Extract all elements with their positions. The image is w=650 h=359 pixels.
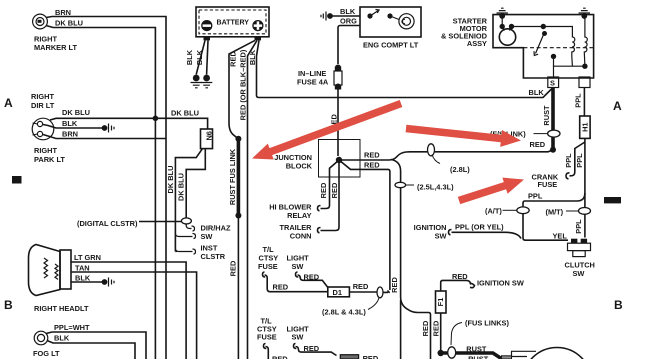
starter motor circle [499,29,515,45]
svg-text:RED: RED [229,260,238,276]
wire to dir/haz sw upper curl [186,224,194,231]
svg-text:SW: SW [435,232,447,241]
eng compt lt lamp [399,14,414,29]
wire RED (OR BLK-RED) battery feed [248,40,258,359]
connector oval digital cluster [181,218,191,224]
svg-text:F1: F1 [436,298,445,307]
svg-text:(A/T): (A/T) [485,207,502,216]
svg-text:FUSE: FUSE [257,333,277,342]
battery negative terminal [201,20,212,40]
wire RED to hi blower relay [318,160,340,211]
oval 2.8L and 4.3L connector [377,287,383,298]
svg-text:BLK: BLK [185,49,194,65]
wire DK BLU N6 to dir/haz sw 2 [186,149,205,225]
svg-text:BRN: BRN [62,130,78,139]
svg-text:BLOCK: BLOCK [286,162,313,171]
starter assy outline [493,15,594,78]
fuse F1 [436,291,447,313]
svg-text:RED: RED [229,51,238,67]
junction dot DK BLU [153,116,159,122]
eng compt lt switch [367,10,399,20]
svg-text:(DIGITAL CLSTR): (DIGITAL CLSTR) [77,219,138,228]
wire BLK battery to starter S [257,40,553,97]
wire PPL branch to A/T [523,193,585,240]
battery positive terminal [252,20,263,40]
oval 2.8L connector [428,144,435,156]
oval F/S link connector [548,130,560,137]
svg-text:(2.8L): (2.8L) [450,165,470,174]
red arrow 2 to F/S link [406,125,521,147]
svg-text:A: A [613,99,622,113]
svg-text:RED: RED [363,354,379,359]
svg-text:BRN: BRN [55,8,71,17]
ground headlt [102,278,114,287]
svg-text:H1: H1 [580,122,589,131]
svg-text:RIGHT: RIGHT [31,92,54,101]
wire from light sw row2 to D2 [294,344,337,356]
svg-text:FUSE 4A: FUSE 4A [297,78,329,87]
headlamp right headlt [29,245,72,296]
svg-text:RED: RED [304,344,320,353]
switch output dot to S [551,54,556,59]
svg-text:SW: SW [292,262,304,271]
thick RUST link from S [551,88,555,150]
connector D1 [328,287,350,297]
wire PPL-WHT fog light [46,332,146,359]
junction block dot [336,157,342,163]
junction block box [319,140,361,178]
svg-text:B: B [614,298,623,312]
wire BLK eng compt lt [330,15,360,17]
svg-text:DK BLU: DK BLU [171,109,199,118]
wire BLK battery ground 2 [207,40,208,74]
svg-text:RED: RED [330,182,339,198]
svg-text:TAN: TAN [75,264,90,273]
wire PPL solenoid to H1 [583,88,585,117]
red arrow 1 to rust fus link [252,100,402,160]
svg-text:SW: SW [201,232,213,241]
svg-text:(2.5L,4.3L): (2.5L,4.3L) [417,183,454,192]
wire BLK battery ground 1 [196,40,205,74]
svg-text:RED: RED [432,320,441,336]
wire BLK fog light [47,341,135,359]
connector fog light [34,331,48,345]
wire DK BLU marker light [46,26,155,359]
svg-text:BLK: BLK [62,119,78,128]
svg-text:D1: D1 [333,288,342,297]
rust bus dot [438,350,444,356]
svg-text:B: B [4,298,13,312]
svg-text:(2.8L & 4.3L): (2.8L & 4.3L) [322,308,366,317]
wire LT GRN headlt [71,262,186,359]
svg-text:PPL: PPL [574,93,583,108]
wire oval to vertical riser [383,290,390,292]
svg-text:CONN: CONN [290,232,312,241]
svg-text:LT GRN: LT GRN [74,253,101,262]
svg-text:RED: RED [364,161,380,170]
svg-text:RIGHT HEADLT: RIGHT HEADLT [34,304,89,313]
svg-text:FOG LT: FOG LT [33,349,60,358]
coil common wire [554,65,585,67]
tick A/T [503,209,517,211]
battery box [196,7,269,37]
ground battery 2 [201,75,212,88]
svg-text:ENG COMPT LT: ENG COMPT LT [363,41,419,50]
blower motor [523,348,592,359]
oval 2.5L,4.3L connector [395,182,406,187]
ground starter 2 [579,8,590,19]
connector D2 [340,355,358,359]
svg-text:RED: RED [304,273,320,282]
svg-text:RUST: RUST [466,345,487,354]
wire F1 to ignition sw [441,280,475,291]
svg-text:CLSTR: CLSTR [201,252,226,261]
blower motor leads [512,351,537,356]
svg-text:DK BLU: DK BLU [55,19,83,28]
ground park light [102,124,114,133]
ground starter 1 [497,8,508,19]
svg-text:DK BLU: DK BLU [62,108,90,117]
solenoid contact bus [512,27,573,38]
ground battery 1 [191,75,202,88]
svg-text:N6: N6 [205,131,214,140]
connector H1 [580,116,590,138]
wire BRN park light [43,135,166,139]
svg-text:RUST: RUST [542,105,551,126]
svg-text:PPL: PPL [574,219,583,234]
terminal S box [548,77,559,88]
svg-text:PPL: PPL [564,153,573,168]
connector right marker light [33,14,48,29]
wire F1 down to rust bus dot [440,313,442,353]
clutch switch [568,239,591,257]
svg-text:RED: RED [353,282,369,291]
svg-text:BLK: BLK [340,7,356,16]
wire DK BLU park light [50,118,208,129]
svg-text:RED: RED [530,140,546,149]
wire (DIGITAL CLSTR) lead [139,221,181,223]
svg-text:RED: RED [390,277,399,293]
rust fusible link top dot [235,136,241,142]
svg-text:RELAY: RELAY [287,211,311,220]
svg-text:DK BLU: DK BLU [166,166,175,194]
wire RED from D1 [349,291,377,293]
starter motor stubs and dots [502,16,511,31]
svg-text:RIGHT: RIGHT [34,146,57,155]
svg-text:FUSE: FUSE [258,262,278,271]
wire RED fuse to junction block [337,89,339,156]
rust fusible link bottom dot [235,213,241,219]
wire RED to trailer conn [318,160,340,233]
solenoid coil 1 [572,37,575,66]
svg-text:S: S [550,79,555,88]
svg-text:PARK LT: PARK LT [34,155,65,164]
tick F/S link [534,133,548,135]
wire RED below link [237,216,239,359]
pointer and label (2.5L,4.3L) [406,184,414,186]
junction dot F/S link [550,147,556,153]
wire from light sw row1 to D1 [296,272,328,287]
terminal tab solenoid [579,77,590,88]
svg-text:MARKER LT: MARKER LT [34,43,77,52]
wire from T/L ctsy fuse row1 to D1 [263,272,328,292]
svg-text:(M/T): (M/T) [546,208,564,217]
connector right dir/park light [32,118,54,140]
connector N6 [201,129,214,149]
svg-text:IGNITION SW: IGNITION SW [477,279,524,288]
svg-text:PPL (OR YEL): PPL (OR YEL) [455,223,504,232]
svg-text:BLK: BLK [54,334,70,343]
svg-text:YEL: YEL [553,232,568,241]
red arrow 3 to crank fuse [458,178,524,205]
svg-text:DK BLU: DK BLU [177,173,186,201]
connector gray box blower [502,356,512,359]
svg-text:PPL=WHT: PPL=WHT [54,323,90,332]
svg-text:A: A [4,96,13,110]
svg-text:BLK: BLK [248,49,257,65]
oval fus links connector [448,347,456,358]
solenoid coil 2 [584,16,587,66]
ground eng compt lt [321,12,333,21]
svg-text:BLK: BLK [195,49,204,65]
rust fusible link [237,139,241,216]
branch B continues down [400,300,402,359]
wire PPL main below H1 [584,138,586,237]
solenoid plunger switch [534,34,544,56]
thick RUST bus wire [441,353,503,359]
svg-text:RUST FUS LINK: RUST FUS LINK [228,148,237,205]
wire TAN headlt [71,272,197,359]
svg-text:BATTERY: BATTERY [217,18,250,27]
wire to dir/haz sw lower curl [175,229,195,252]
wire from T/L ctsy fuse row2 [264,344,269,359]
wire BRN marker light [46,17,166,359]
svg-text:DIR LT: DIR LT [31,101,55,110]
wire RED battery feed [229,40,255,139]
oval A/T connector [517,207,529,214]
wire PPL (OR YEL) from ignition sw [449,230,522,239]
svg-text:ASSY: ASSY [467,39,487,48]
svg-text:RUST: RUST [468,355,489,359]
wire DK BLU N6 to dir/haz sw 1 [175,149,202,252]
svg-text:PPL: PPL [528,192,543,201]
svg-text:SW: SW [292,333,304,342]
svg-text:RED: RED [421,320,430,336]
svg-text:RED (OR BLK–RED): RED (OR BLK–RED) [239,49,248,120]
svg-text:RED: RED [273,283,289,292]
svg-text:RED: RED [272,355,288,359]
alignment dash right [604,197,621,203]
wire ORG eng compt lt [338,26,360,65]
svg-text:BLK: BLK [75,274,91,283]
svg-text:FUSE: FUSE [538,180,558,189]
pointer to (2.8L and 4.3L) label [368,298,379,310]
svg-text:RED: RED [364,151,380,160]
wire INST CLSTR [175,236,195,254]
branch wire PPL to crank fuse [566,142,585,179]
svg-text:PPL: PPL [575,153,584,168]
svg-text:SW: SW [573,269,585,278]
wire BLK headlt [71,281,102,283]
svg-text:ORG: ORG [340,17,357,26]
alignment dash left [12,176,22,184]
solenoid divider dashed [523,47,593,49]
pointer and label (2.8L) [432,155,440,164]
svg-text:RED: RED [319,182,328,198]
branch B wire to 2.5L/4.3L [391,159,431,359]
eng compt lt box [360,7,421,37]
wire RED line2 to D1 feed [339,160,390,290]
in-line fuse 4A [334,65,342,90]
wire BLK park light [43,125,102,129]
svg-text:BLK: BLK [529,88,545,97]
wire RED line1 to F/S link junction [339,150,553,160]
svg-text:(FUS LINKS): (FUS LINKS) [465,319,509,328]
oval M/T connector [579,208,591,215]
tick M/T [566,210,578,212]
pointer from (FUS LINKS) to oval [451,323,462,346]
